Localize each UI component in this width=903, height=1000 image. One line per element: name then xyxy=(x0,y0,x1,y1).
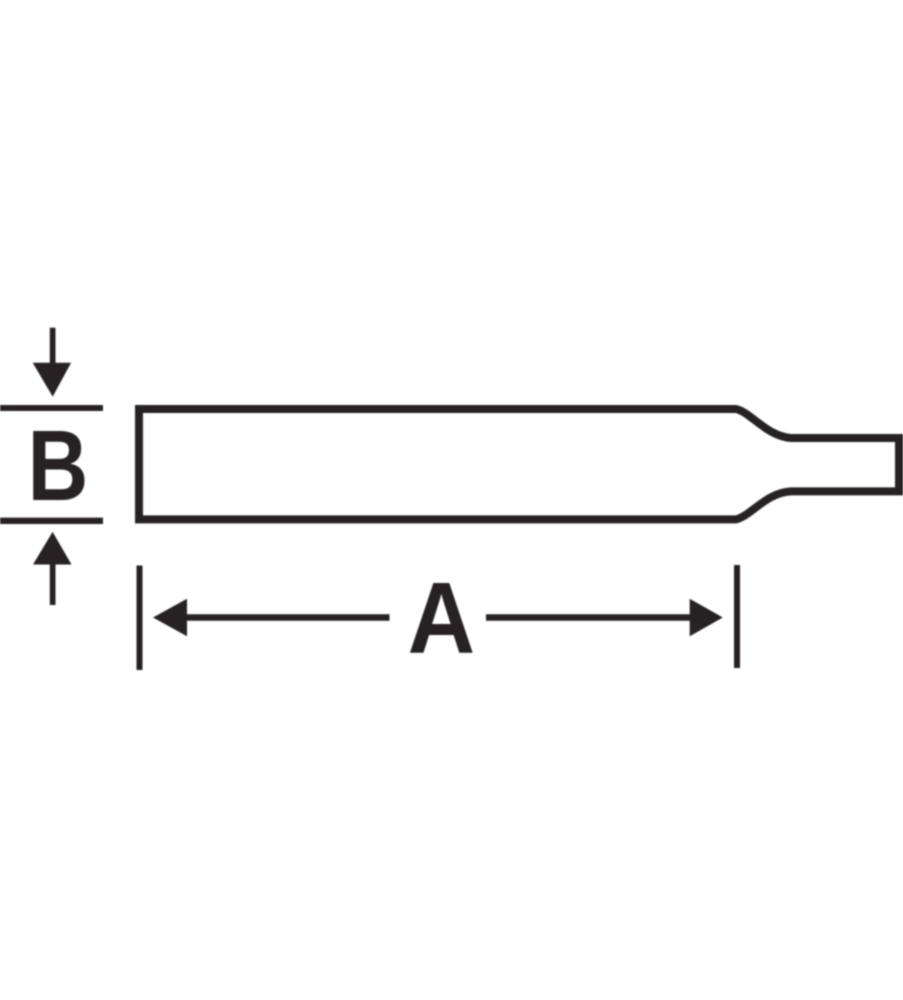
svg-text:A: A xyxy=(408,562,475,675)
svg-text:B: B xyxy=(28,409,89,522)
